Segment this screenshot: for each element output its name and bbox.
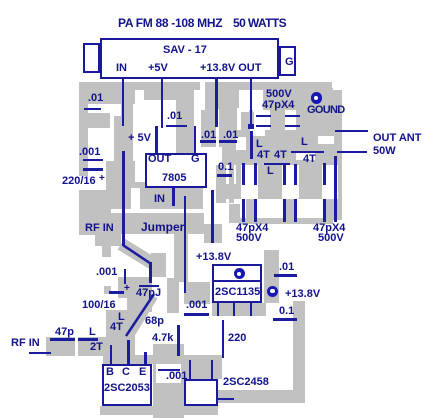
copper trace	[229, 165, 234, 203]
coil L 4T right	[301, 137, 308, 148]
regulator 7805	[145, 153, 208, 188]
wire 7805 IN lead	[172, 187, 175, 206]
SAV-17 ground tab G	[279, 46, 297, 76]
copper trace	[79, 90, 88, 176]
copper trace	[100, 406, 218, 415]
pin label +5V	[148, 63, 168, 74]
copper trace	[103, 355, 153, 364]
copper trace	[106, 310, 135, 337]
copper trace	[218, 390, 305, 403]
copper trace	[167, 278, 179, 313]
etched gap	[250, 128, 265, 136]
wire 7805 G up	[194, 126, 197, 153]
copper trace	[246, 199, 254, 218]
module SAV-17	[100, 38, 279, 80]
label RF IN pad	[85, 223, 114, 234]
copper trace	[95, 234, 121, 246]
copper trace	[102, 246, 111, 257]
copper trace	[204, 224, 222, 243]
white cutouts	[200, 82, 205, 110]
capacitor .01 right	[279, 262, 294, 273]
copper trace	[79, 190, 111, 235]
label 500V 47pX4 top	[266, 89, 292, 100]
copper trace	[236, 130, 333, 165]
etched gap	[318, 136, 334, 144]
capacitor .01 mid	[167, 111, 182, 122]
capacitor .01 #4	[223, 130, 238, 141]
2SC2458 leads	[189, 360, 192, 379]
label Jumper	[141, 222, 184, 233]
capacitor .001 mid (under jumper wire2)	[186, 300, 207, 311]
copper trace	[270, 110, 285, 130]
resistor 220	[228, 333, 246, 344]
etched gap	[282, 165, 299, 199]
etched gap	[236, 137, 246, 150]
copper trace	[224, 184, 342, 199]
wire to +13.8V mid	[211, 190, 214, 243]
copper trace	[326, 199, 334, 218]
transistor 2SC2458	[184, 379, 218, 406]
capacitor 47p bottom	[55, 327, 74, 338]
copper trace	[205, 82, 240, 108]
copper trace	[184, 282, 210, 304]
etched gap	[216, 109, 219, 147]
group3	[323, 163, 326, 185]
etched gap	[241, 165, 258, 199]
etched gap	[322, 165, 338, 199]
copper trace	[300, 110, 333, 130]
capacitor .001 bottom	[158, 369, 181, 372]
copper trace	[121, 104, 133, 116]
jumper wire 2	[184, 196, 187, 293]
copper trace	[212, 303, 266, 316]
capacitor 0.1 right	[279, 306, 294, 317]
capacitor 220/16	[83, 168, 103, 171]
etched gap	[253, 90, 263, 112]
resistor 4.7k	[152, 333, 173, 344]
copper trace	[180, 355, 222, 379]
wire OUT pin down	[250, 79, 253, 124]
capacitor .001 mid-left	[96, 267, 117, 278]
coil L 4T 4T left	[250, 131, 253, 159]
etched gap	[239, 90, 249, 112]
copper trace	[216, 165, 226, 203]
copper trace	[293, 301, 305, 390]
jumper wire 1 lower vertical	[149, 262, 152, 283]
RF IN bottom	[11, 338, 40, 349]
copper trace	[286, 199, 294, 218]
copper trace	[229, 204, 240, 223]
labels 47pX4 500V bottom left	[236, 223, 268, 234]
copper trace	[201, 108, 240, 147]
etched gap	[131, 188, 140, 209]
coil L 4T (bottom mid)	[118, 312, 125, 323]
copper trace	[222, 147, 244, 165]
jumper wire 1 vertical	[122, 151, 125, 246]
copper trace	[174, 234, 188, 282]
labels 47pX4 500V bottom right	[313, 223, 345, 234]
wire OUT ANT upper	[335, 130, 368, 133]
group2	[283, 164, 286, 185]
label G	[285, 57, 294, 68]
SAV-17 left tab	[83, 43, 100, 73]
etched gap	[75, 337, 79, 356]
copper trace	[108, 213, 204, 234]
ground via donut	[311, 92, 323, 104]
feedthrough caps 47pX4 plates	[256, 115, 271, 118]
wire IN pin down	[122, 79, 125, 126]
etched gap	[296, 153, 315, 160]
2SC2053 leads	[110, 345, 113, 364]
copper trace	[296, 88, 333, 130]
via donut +13.8V right	[267, 286, 278, 297]
label SAV - 17	[163, 45, 207, 56]
capacitor .01 #3	[201, 130, 216, 141]
copper trace	[236, 165, 342, 184]
label GOUND	[307, 105, 344, 116]
capacitor .01 top-left	[88, 93, 103, 104]
copper trace	[111, 182, 203, 209]
copper trace	[257, 88, 332, 110]
coil L 2T	[89, 327, 96, 338]
pin label +13.8V OUT	[200, 63, 261, 74]
copper trace	[239, 218, 333, 224]
etched gap	[156, 364, 181, 383]
wire +5V pin down	[161, 79, 164, 128]
copper trace	[118, 277, 152, 298]
wire 7805 OUT up	[155, 126, 158, 153]
copper trace	[264, 250, 279, 303]
coil L mid bottom	[264, 163, 290, 166]
transistor 2SC1135	[212, 264, 263, 303]
wire +13.8V pin down	[215, 79, 218, 127]
copper trace	[144, 85, 194, 100]
label OUT ANT 50W	[373, 133, 421, 144]
copper trace	[333, 90, 342, 220]
wire OUT ANT lower	[337, 151, 367, 154]
capacitor 47pJ plate	[139, 285, 159, 288]
capacitor .001 left	[79, 147, 100, 158]
title text	[118, 18, 222, 29]
etched gap	[237, 108, 241, 130]
electrolytic 100/16	[124, 283, 130, 294]
pin label IN	[116, 63, 127, 74]
transistor 2SC2053	[102, 364, 152, 406]
capacitor 0.1	[218, 162, 233, 173]
copper trace	[46, 337, 135, 356]
copper trace	[153, 344, 184, 418]
copper trace	[127, 298, 152, 312]
bottom 47pX4 vertical plate caps group1	[242, 163, 245, 185]
copper trace	[151, 253, 166, 277]
copper trace	[88, 90, 135, 104]
copper trace	[176, 100, 194, 153]
2SC1135 mounting hole donut	[234, 268, 245, 279]
2SC1135 pins	[217, 303, 220, 316]
copper trace	[238, 110, 254, 130]
wire OUT tip pad	[248, 124, 254, 129]
copper trace	[104, 286, 111, 294]
label 68p	[145, 316, 164, 327]
copper trace	[88, 113, 110, 128]
copper trace	[114, 116, 133, 161]
copper trace	[106, 161, 135, 209]
label + 5V	[128, 133, 151, 144]
label +13.8V mid	[196, 252, 231, 263]
